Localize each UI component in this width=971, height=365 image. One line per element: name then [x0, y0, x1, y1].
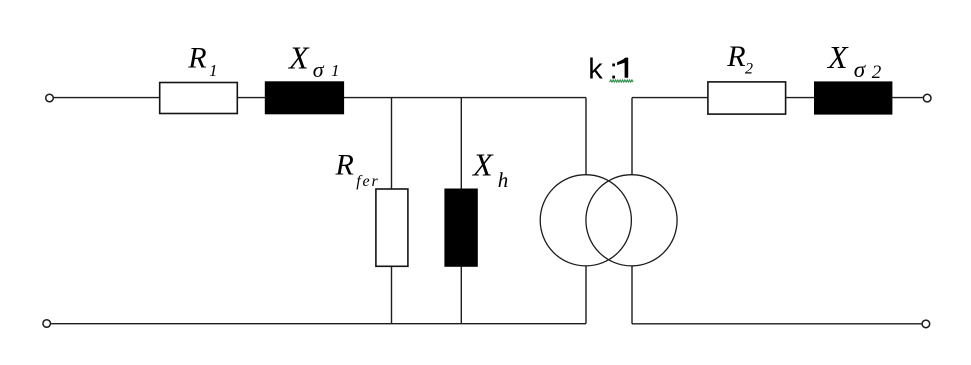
svg-text:X: X [826, 39, 849, 75]
terminal top-left [46, 94, 54, 102]
grammar squiggle under :1 [610, 80, 634, 82]
svg-text:R: R [187, 41, 206, 74]
reactance Xh [445, 189, 477, 266]
wire bottom-left rail [51, 323, 586, 325]
wire transformer secondary bottom lead [631, 266, 633, 324]
wire Rfer branch vertical [391, 98, 393, 324]
transformer U1 primary circle [540, 175, 631, 266]
resistor R2 [708, 82, 786, 114]
svg-text:fer: fer [356, 173, 379, 190]
transformer U1 secondary circle [586, 175, 677, 266]
svg-text:X: X [287, 39, 310, 75]
wire transformer primary bottom lead [585, 266, 587, 324]
wire Xh branch vertical [460, 98, 462, 324]
wire transformer secondary top lead [631, 98, 633, 176]
svg-text:2: 2 [872, 62, 882, 83]
svg-text:R: R [335, 149, 354, 182]
reactance Xsigma2 [815, 82, 892, 114]
svg-text:h: h [498, 168, 509, 192]
svg-text:X: X [471, 147, 494, 183]
resistor Rfer [376, 189, 408, 266]
wire transformer primary top lead [585, 98, 587, 176]
svg-text:k: k [588, 54, 603, 86]
svg-text:1: 1 [331, 61, 340, 80]
terminal top-right [923, 94, 931, 102]
svg-text:R: R [726, 40, 745, 73]
reactance Xsigma1 [265, 82, 343, 114]
svg-text:2: 2 [745, 61, 753, 78]
terminal bottom-right [922, 320, 930, 328]
svg-text:σ: σ [854, 57, 867, 82]
resistor R1 [160, 83, 238, 114]
wire top-right rail [632, 97, 923, 99]
svg-text:1: 1 [209, 61, 218, 80]
svg-text:σ: σ [313, 57, 325, 82]
terminal bottom-left [43, 320, 51, 328]
wire top-left rail [53, 97, 586, 99]
wire bottom-right rail [632, 323, 922, 325]
